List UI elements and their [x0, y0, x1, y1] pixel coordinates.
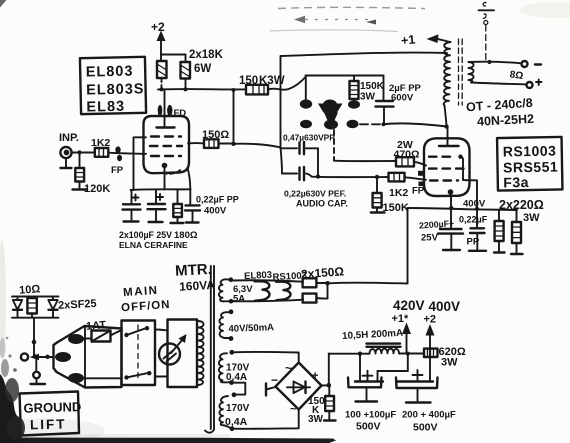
scan artifact: top-left corner — [0, 0, 7, 8]
part list box EL803 EL803S EL83 — [80, 57, 146, 116]
svg-text:3W: 3W — [523, 212, 540, 224]
wire input to grid — [72, 150, 95, 154]
resistor 150K (V2 grid leak) — [371, 177, 409, 214]
MTR 6,3V winding — [219, 277, 233, 303]
label 150 ohm — [202, 129, 229, 141]
svg-text:2xSF25: 2xSF25 — [58, 298, 97, 312]
svg-text:3W: 3W — [441, 357, 458, 369]
resistor 2x18K 6W (left) — [157, 61, 167, 88]
label 2x150 ohm — [301, 264, 345, 281]
wire 400V rail down to heater bus — [407, 208, 409, 284]
wire V1 plate out — [188, 142, 204, 145]
wire speaker - terminal — [471, 80, 542, 89]
label 10,5H 200mA — [342, 328, 403, 342]
svg-text:10Ω: 10Ω — [19, 283, 41, 296]
resistor 150K 3W (driver) — [350, 76, 359, 102]
wire 150K3W to driver node — [268, 77, 306, 90]
svg-text:200 + 400µF: 200 + 400µF — [402, 410, 456, 421]
IEC pins — [55, 334, 84, 383]
choke 10,5H 200mA — [366, 344, 401, 354]
label +1 (feedback) — [400, 32, 416, 47]
resistor 1K2 (V2 grid) — [389, 173, 409, 199]
wire switch to primary — [155, 330, 168, 377]
label 40V/50mA — [228, 322, 274, 335]
resistor 150K3W — [246, 85, 268, 95]
svg-text:FP: FP — [111, 165, 124, 176]
wire 1K2 to V2 grid + bead FP — [405, 171, 427, 197]
svg-text:2x18K: 2x18K — [189, 49, 224, 61]
svg-text:420V: 420V — [393, 298, 425, 313]
wire OT primary to V2 plate — [445, 106, 447, 127]
ferrite bead FP (input) — [111, 146, 124, 176]
pencil faint line — [270, 30, 398, 32]
output tube V2 envelope — [424, 138, 470, 196]
capacitor 100uF (right) — [148, 190, 166, 222]
svg-text:INP.: INP. — [59, 132, 79, 144]
resistor 150 ohm (heater bottom) — [303, 294, 328, 303]
wire 170V series loop — [232, 383, 246, 397]
connector input RCA — [60, 147, 71, 168]
driver tube getter (top view) — [318, 104, 343, 122]
transformer OT primary winding — [444, 42, 451, 106]
scan artifact: bottom-left blob — [0, 337, 25, 443]
svg-text:F3a: F3a — [503, 174, 529, 190]
capacitor 200+400uF 500V — [396, 370, 438, 403]
label 2uF PP 600V — [389, 83, 422, 104]
label 2x18K 6W — [189, 49, 224, 75]
label MAIN OFF/ON — [121, 285, 171, 315]
wire grid stopper — [108, 153, 146, 154]
resistor 1K2 (input) — [95, 148, 109, 157]
svg-text:40V/50mA: 40V/50mA — [228, 322, 274, 335]
chassis terminal + arrow — [21, 353, 54, 360]
capacitor 0,22u 630V PEF — [282, 167, 312, 180]
MTR core — [205, 266, 214, 433]
resistor 2x18K 6W (right) — [181, 62, 191, 89]
mains switch box — [122, 321, 156, 386]
GROUND LIFT box — [20, 392, 82, 436]
svg-text:600V: 600V — [391, 93, 414, 104]
wire V1 plate to anode rail — [164, 90, 166, 128]
label 8 ohm — [509, 69, 524, 82]
wire 170V top to bridge — [232, 352, 299, 363]
wire driver plate to V2 plate line — [384, 123, 447, 126]
capacitor 0,47u 630V PP — [281, 142, 318, 154]
MTR primary winding — [199, 321, 204, 385]
heater V1 symbol — [255, 281, 270, 301]
wire IEC bottom pin to switch — [84, 377, 122, 379]
svg-text:0,22µ630V PEF.: 0,22µ630V PEF. — [284, 189, 346, 199]
resistor 150 ohm — [204, 139, 219, 148]
label MTR. 160VA — [175, 261, 216, 294]
svg-text:−: − — [271, 373, 278, 387]
svg-text:400V: 400V — [204, 206, 227, 217]
svg-text:RS1003: RS1003 — [503, 143, 557, 160]
svg-text:170V: 170V — [226, 403, 250, 414]
wire 170V bottom to bridge — [232, 410, 299, 429]
wire heater bus bottom — [224, 300, 304, 302]
signal ground terminal — [31, 357, 46, 384]
resistor 220 ohm (right) — [511, 210, 523, 254]
capacitor 2200uF 25V — [438, 229, 463, 250]
V1 grids (dashed) — [150, 137, 182, 157]
bridge polarity marks — [271, 361, 318, 416]
wire speaker + terminal — [469, 60, 542, 67]
label 0,22u630V PEF AUDIO CAP — [284, 189, 348, 209]
V2 grids (dashed) — [429, 157, 464, 181]
svg-text:400V: 400V — [429, 299, 461, 314]
label 170V 0,4A (lower) — [225, 403, 250, 428]
MTR primary box — [168, 320, 198, 388]
label 2x100uF 25V 180 ohm — [119, 230, 198, 241]
wire cap A to grid rail — [316, 148, 320, 178]
label EL803 RS1003 heaters — [244, 270, 307, 284]
OT secondary winding — [469, 62, 474, 83]
switch contact (bottom) — [124, 371, 151, 380]
resistor 620 ohm — [424, 346, 466, 369]
svg-text:EL83: EL83 — [86, 99, 125, 116]
svg-text:EL803: EL803 — [86, 64, 134, 81]
svg-text:FP: FP — [412, 186, 425, 197]
svg-text:470Ω: 470Ω — [394, 149, 420, 161]
coupling caps left bus — [281, 148, 283, 174]
scan artifact: bottom dark band — [0, 438, 336, 443]
wire g3 tie to cathode rail — [134, 137, 147, 190]
label +2 (top left supply) — [151, 20, 165, 34]
label 200+400uF 500V — [402, 410, 456, 434]
capacitor 0,22uF PP (V2 cathode) — [459, 215, 488, 251]
label 10 ohm (ground lift) — [19, 283, 41, 296]
resistor 150 ohm (heater top) — [303, 278, 328, 287]
svg-text:40N-25H2: 40N-25H2 — [477, 112, 535, 129]
wire driver to 470 ohm — [334, 160, 396, 162]
resistor 220 ohm (left) — [494, 210, 505, 253]
bridge minus lead — [266, 384, 276, 396]
MTR 170V winding 2 — [219, 396, 234, 431]
label 150K3W — [239, 75, 285, 87]
FD shield marks V1 — [158, 105, 187, 119]
label 0,47u630VPP — [283, 133, 335, 143]
ground lift network top bar — [12, 296, 59, 298]
label 150K 3W (driver) — [360, 81, 385, 103]
heater V2 symbol — [276, 282, 291, 301]
label 2200uF+ 25V — [419, 218, 455, 243]
pencil arrow left (top) — [294, 16, 376, 25]
MTR primary adjuster — [159, 334, 187, 365]
label 2xSF25 — [58, 298, 97, 312]
label 100+100uF 500V — [345, 410, 396, 433]
wire V2 cathode rail 400V — [408, 208, 518, 210]
svg-text:120K: 120K — [84, 183, 110, 195]
V2 plate — [439, 124, 459, 146]
diode SF25 (left) — [13, 297, 22, 318]
label 170V 0,4A (upper) — [226, 363, 250, 384]
resistor 470 ohm — [396, 157, 426, 166]
svg-text:500V: 500V — [356, 421, 381, 433]
driver tube socket pins (top view) — [300, 99, 360, 129]
svg-text:0,4A: 0,4A — [225, 416, 248, 428]
capacitor 100+100uF 500V — [348, 354, 383, 402]
svg-text:GROUND: GROUND — [23, 399, 81, 416]
svg-text:EL803S: EL803S — [86, 81, 145, 98]
svg-text:+: + — [312, 370, 318, 382]
svg-text:AUDIO CAP.: AUDIO CAP. — [296, 199, 348, 209]
label ELNA CERAFINE — [119, 240, 188, 250]
wire ground lift to chassis wire — [32, 318, 38, 359]
svg-text:100 +100µF: 100 +100µF — [345, 410, 396, 421]
switch contact (top) — [124, 326, 149, 337]
svg-text:0,4A: 0,4A — [226, 372, 247, 383]
wire choke out — [400, 352, 425, 356]
label 2W 470 ohm — [394, 139, 420, 161]
svg-text:5A: 5A — [233, 294, 245, 305]
svg-text:2x100µF 25V: 2x100µF 25V — [119, 230, 172, 240]
svg-text:PP: PP — [467, 237, 480, 248]
V2 cathode — [448, 189, 454, 229]
label 1AT — [86, 319, 107, 332]
V2 screen tap — [458, 155, 479, 229]
label INP. — [59, 132, 79, 144]
box RS1003 SRS551 F3a — [497, 137, 562, 191]
resistor 120K — [73, 155, 111, 196]
svg-text:MAIN: MAIN — [123, 285, 159, 299]
wire driver output (dashed) — [333, 130, 335, 161]
svg-text:0,22µF PP: 0,22µF PP — [196, 195, 239, 205]
svg-text:400V: 400V — [463, 199, 486, 210]
diode SF25 (right) — [48, 297, 57, 318]
fuse 1AT — [84, 330, 122, 341]
label 400V (cathode rail) — [463, 199, 486, 210]
label OT-240C/8 40N-25H2 — [466, 96, 535, 129]
svg-text:SRS551: SRS551 — [503, 159, 558, 176]
wire feedback line from OT — [281, 53, 448, 148]
capacitor 100uF (left) — [123, 190, 141, 222]
svg-text:6W: 6W — [194, 63, 211, 75]
wire anode rail to 150K3W — [158, 88, 246, 90]
svg-text:~: ~ — [290, 404, 297, 416]
chassis symbol (speaker gnd) — [479, 2, 495, 61]
V1 plate — [157, 126, 175, 128]
wire V1 cathode rail — [131, 168, 191, 191]
label 6,3V 5A — [233, 284, 253, 305]
wire heater resistors junction — [325, 281, 407, 298]
svg-text:ELNA CERAFINE: ELNA CERAFINE — [119, 240, 188, 250]
svg-text:LIFT: LIFT — [30, 416, 67, 432]
svg-text:1K2: 1K2 — [389, 187, 408, 199]
wire vertical from anode rail down — [232, 88, 236, 144]
triode/pentode V1 EL803 envelope — [144, 116, 190, 174]
svg-text:+1*: +1* — [392, 313, 410, 325]
wire B+ main — [329, 352, 366, 356]
node +2 arrow up — [157, 31, 166, 55]
svg-text:25V: 25V — [421, 233, 439, 244]
pencil dashed line (top) — [278, 7, 425, 8]
IEC mains inlet — [54, 326, 122, 388]
resistor 180 ohm (cathode) — [171, 190, 184, 224]
svg-text:MTR.: MTR. — [175, 261, 213, 280]
wire screen dash-dot to 2uF — [360, 122, 386, 126]
resistor 150K 3W (bleeder) — [308, 386, 336, 426]
bridge rectifier — [276, 363, 322, 410]
ground lift network bottom bar — [12, 317, 59, 319]
svg-text:150K: 150K — [383, 202, 409, 214]
wire driver top rail — [306, 76, 384, 101]
svg-text:~: ~ — [285, 361, 292, 375]
MTR 170V winding 1 — [219, 350, 234, 385]
svg-text:FD: FD — [174, 108, 187, 119]
label 0,22uF PP 400V — [196, 195, 239, 217]
wire anode supply — [161, 55, 186, 62]
capacitor 2uF PP 600V — [376, 101, 394, 124]
svg-text:+2: +2 — [424, 314, 437, 326]
wire V2 grid rail — [312, 175, 389, 179]
svg-text:3W: 3W — [308, 414, 324, 425]
svg-text:+2: +2 — [151, 20, 165, 34]
wire heater bus top — [231, 280, 303, 281]
feedback arrowhead — [427, 34, 451, 43]
MTR 40V winding — [219, 309, 233, 341]
resistor 10 ohm — [27, 297, 36, 318]
junction dots anode rail — [159, 87, 187, 91]
svg-text:3W: 3W — [360, 92, 376, 103]
svg-text:8Ω: 8Ω — [509, 69, 524, 82]
svg-text:+1: +1 — [400, 32, 416, 47]
svg-text:0,22µF: 0,22µF — [459, 215, 488, 225]
svg-text:2x220Ω: 2x220Ω — [499, 198, 544, 212]
V1 cathode — [162, 163, 168, 190]
svg-text:0,47µ630VPP: 0,47µ630VPP — [283, 133, 335, 143]
arrow +1 420V — [392, 298, 425, 353]
wire choke node to cap1 — [378, 354, 408, 381]
svg-text:150K: 150K — [360, 81, 385, 92]
capacitor 0,22uF PP (cathode) — [185, 189, 200, 222]
bridge plus node — [322, 354, 332, 388]
wire 150 ohm to coupling node — [219, 142, 281, 148]
svg-text:500V: 500V — [413, 422, 438, 434]
OT core — [459, 39, 463, 105]
label 2x220 ohm 3W — [499, 198, 544, 224]
arrow +2 400V — [424, 299, 461, 381]
label 1K2 (input) — [91, 137, 110, 149]
